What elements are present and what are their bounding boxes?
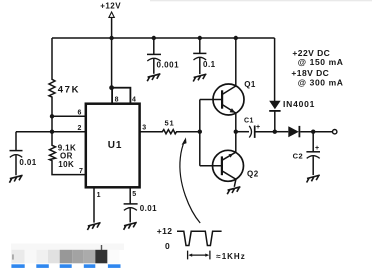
- svg-text:7: 7: [79, 168, 83, 175]
- svg-text:2: 2: [78, 125, 82, 132]
- svg-text:47K: 47K: [58, 85, 80, 96]
- svg-text:IN4001: IN4001: [283, 99, 315, 109]
- svg-text:5: 5: [132, 191, 136, 198]
- svg-text:0.01: 0.01: [140, 204, 157, 213]
- svg-text:C2: C2: [293, 152, 304, 161]
- svg-text:+12: +12: [157, 226, 173, 236]
- svg-text:@ 150 mA: @ 150 mA: [298, 57, 344, 67]
- svg-text:1: 1: [97, 192, 101, 199]
- svg-text:51: 51: [165, 118, 175, 127]
- svg-text:0.1: 0.1: [203, 60, 216, 69]
- svg-text:0.001: 0.001: [157, 60, 180, 69]
- svg-text:0: 0: [165, 241, 170, 251]
- svg-text:10K: 10K: [58, 160, 74, 169]
- svg-text:C1: C1: [244, 118, 254, 125]
- svg-text:U1: U1: [108, 140, 122, 151]
- svg-text:0.01: 0.01: [19, 158, 36, 167]
- svg-text:@ 300 mA: @ 300 mA: [298, 77, 344, 87]
- svg-text:≈1KHz: ≈1KHz: [216, 252, 245, 261]
- svg-text:+12V: +12V: [100, 1, 121, 10]
- svg-text:+18V DC: +18V DC: [291, 68, 329, 78]
- svg-text:3: 3: [142, 124, 146, 131]
- svg-text:8: 8: [115, 96, 119, 103]
- svg-text:6: 6: [78, 109, 82, 116]
- svg-text:+: +: [256, 124, 260, 131]
- svg-text:Q2: Q2: [247, 170, 259, 179]
- svg-text:4: 4: [132, 96, 136, 103]
- svg-text:Q1: Q1: [244, 80, 256, 89]
- svg-text:+: +: [315, 145, 319, 152]
